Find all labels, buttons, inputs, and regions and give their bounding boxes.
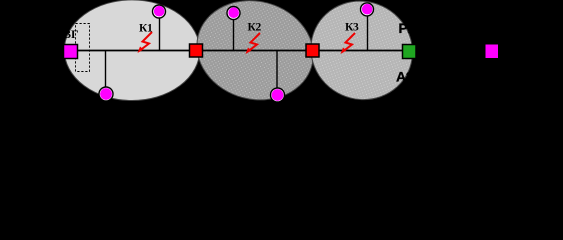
- svg-text:К3: К3: [345, 22, 359, 34]
- svg-text:РУ: РУ: [399, 20, 417, 36]
- generator circle top system 3: [361, 3, 374, 16]
- bus wire (main horizontal line): [70, 50, 409, 52]
- generator circle top system 2: [227, 7, 240, 20]
- wire to upper generator of system 2: [233, 13, 235, 51]
- svg-text:АЭС: АЭС: [396, 69, 426, 85]
- generator square ВГ (magenta): [64, 45, 78, 59]
- svg-text:К2: К2: [248, 22, 262, 34]
- legend square (magenta): [485, 44, 499, 59]
- wire to upper generator of system 1: [159, 12, 161, 51]
- generator circle bottom system 1: [99, 87, 113, 101]
- breaker square 1 (red, between systems 1-2): [190, 44, 203, 57]
- wire to upper generator of system 3: [367, 9, 369, 51]
- wire to lower generator of system 2: [276, 51, 278, 90]
- short-circuit bolt K1: [141, 32, 153, 50]
- dashed boundary box of ВГ unit: [76, 24, 90, 72]
- wire to lower generator of system 1: [105, 51, 107, 89]
- short-circuit bolt K2: [249, 33, 261, 51]
- generator circle top system 1: [153, 5, 166, 18]
- power system 1 ellipse: [64, 0, 199, 101]
- link square to power plant (green): [403, 45, 417, 59]
- svg-text:К1: К1: [139, 23, 153, 35]
- breaker square 2 (red, between systems 2-3): [306, 44, 319, 57]
- short-circuit bolt K3: [344, 33, 356, 51]
- power system 2 ellipse: [186, 0, 325, 113]
- power system 3 ellipse: [295, 0, 429, 116]
- svg-text:ВГ: ВГ: [63, 27, 79, 41]
- generator circle bottom system 2: [271, 88, 285, 102]
